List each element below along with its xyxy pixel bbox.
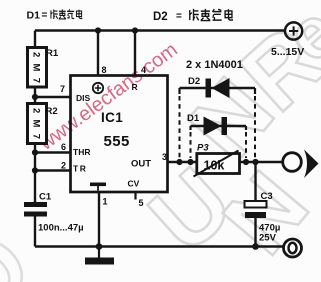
IC1 555 body xyxy=(71,76,168,193)
junction pin1/ground xyxy=(96,243,103,250)
pin 5 stub CV xyxy=(134,192,136,200)
svg-text:100n...47µ: 100n...47µ xyxy=(38,223,84,234)
wire pin 4 from rail xyxy=(134,31,136,76)
svg-text:2M7: 2M7 xyxy=(31,108,42,139)
ground symbol xyxy=(85,247,114,265)
dashed wire D1 right down xyxy=(245,126,247,130)
wire R2 down to C1 xyxy=(34,144,36,203)
dashed wire D1 left down xyxy=(189,126,191,130)
resistor R1 xyxy=(28,48,47,88)
wire left column from rail to R1 xyxy=(34,31,36,48)
svg-text:2: 2 xyxy=(61,161,66,171)
svg-text:OUT: OUT xyxy=(131,159,151,170)
power terminal + (5...15V) xyxy=(285,22,302,39)
junction node THR branch xyxy=(32,149,38,155)
svg-text:D1: D1 xyxy=(27,10,41,22)
svg-text:3: 3 xyxy=(162,152,167,162)
output arrow xyxy=(304,150,319,179)
potentiometer P3 box xyxy=(194,151,240,177)
IC internal ground bar above pin 1 xyxy=(90,183,106,191)
svg-text:C1: C1 xyxy=(39,192,52,203)
svg-text:7: 7 xyxy=(60,84,65,94)
wire to pin 2 TR xyxy=(35,169,71,171)
wire bottom ground rail xyxy=(35,245,283,248)
wire to pin 6 THR xyxy=(35,151,71,153)
svg-text:555: 555 xyxy=(104,133,130,150)
wire output node to C3 xyxy=(254,162,256,201)
wire C1 to bottom rail xyxy=(34,217,36,247)
junction D1 right xyxy=(243,159,249,165)
label D1 = 快速充电 xyxy=(27,9,83,21)
pot wiper diagonal xyxy=(194,151,239,177)
ground terminal 0 xyxy=(284,239,302,257)
wire top supply rail xyxy=(35,29,285,31)
svg-text:DIS: DIS xyxy=(76,93,91,103)
capacitor C3 electrolytic xyxy=(245,201,267,218)
svg-text:TR: TR xyxy=(73,164,87,174)
svg-text:R2: R2 xyxy=(46,106,58,117)
wire pot to output node xyxy=(240,161,283,163)
output terminal circle xyxy=(283,153,302,172)
wire to pin 7 DIS xyxy=(35,96,71,98)
svg-text:5...15V: 5...15V xyxy=(271,46,304,58)
junction D1 left xyxy=(187,159,193,165)
junction on rail pin4 xyxy=(132,27,138,33)
junction node R1/R2/DIS xyxy=(32,94,38,100)
diode D1 (points right) xyxy=(191,117,247,136)
capacitor C1 xyxy=(24,202,47,217)
junction D2 right / output node xyxy=(252,159,258,165)
svg-text:R: R xyxy=(132,82,138,92)
svg-text:1: 1 xyxy=(103,197,108,207)
svg-text:D2: D2 xyxy=(153,11,168,23)
svg-text:6: 6 xyxy=(61,142,66,152)
plus circle inside IC xyxy=(93,83,103,93)
svg-text:R1: R1 xyxy=(46,48,59,59)
svg-text:P3: P3 xyxy=(197,143,209,154)
resistor R2 xyxy=(28,104,47,144)
label D2 = 快速放电 xyxy=(153,9,233,23)
junction D2 left xyxy=(176,159,182,165)
wire C3 to ground rail xyxy=(254,218,256,247)
svg-text:2 x 1N4001: 2 x 1N4001 xyxy=(186,59,243,71)
svg-text:4: 4 xyxy=(141,65,146,75)
svg-text:25V: 25V xyxy=(259,233,277,244)
junction node TR branch xyxy=(32,167,38,173)
svg-text:IC1: IC1 xyxy=(101,110,123,125)
dashed wire D2 right down xyxy=(254,88,256,94)
wire pin 3 OUT to pot xyxy=(168,161,198,163)
svg-text:D1: D1 xyxy=(187,113,200,124)
wire pin 8 from rail xyxy=(97,31,99,76)
junction on rail pin8 xyxy=(95,27,101,33)
diode D2 (points left) xyxy=(180,78,256,98)
svg-text:5: 5 xyxy=(139,198,144,208)
svg-text:C3: C3 xyxy=(261,191,273,202)
wire pin 1 to ground rail xyxy=(98,192,100,247)
dashed wire D2 left down xyxy=(178,88,180,94)
svg-text:THR: THR xyxy=(73,147,90,157)
svg-text:8: 8 xyxy=(102,65,107,75)
svg-text:=: = xyxy=(42,10,48,21)
svg-text:CV: CV xyxy=(128,179,140,189)
junction C3/ground rail xyxy=(252,243,259,250)
wire R1 to R2 xyxy=(34,87,36,104)
svg-text:=: = xyxy=(176,11,182,22)
svg-text:2M7: 2M7 xyxy=(31,52,42,83)
svg-text:D2: D2 xyxy=(188,76,200,87)
